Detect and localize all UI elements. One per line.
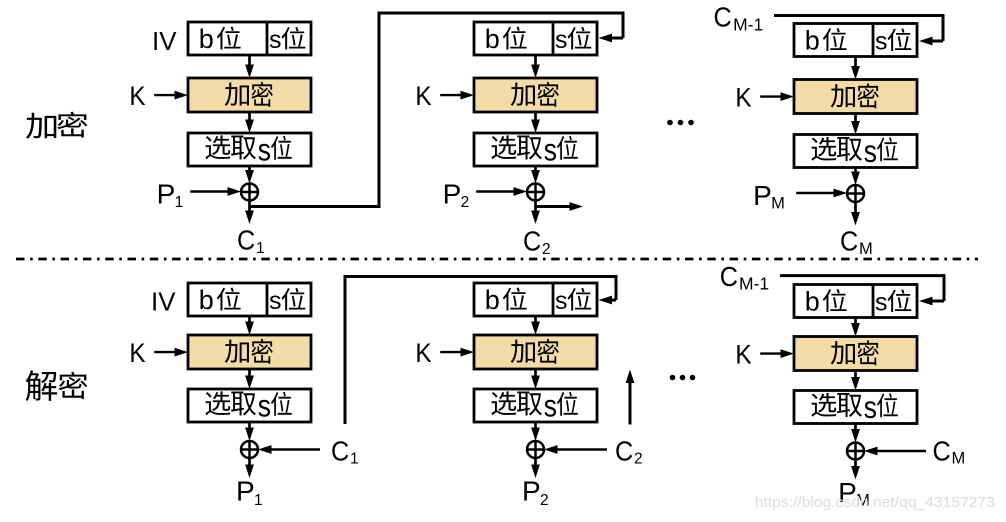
svg-text:s: s: [875, 27, 888, 55]
svg-text:IV: IV: [151, 286, 176, 316]
wire: register to encrypt (dec-3): [851, 318, 860, 337]
register label "b位" (dec-2): [485, 285, 527, 315]
svg-text:b: b: [485, 285, 500, 315]
svg-text:s: s: [258, 133, 271, 168]
section label 加密 (encryption): [26, 112, 87, 139]
XOR node (dec-2): [527, 441, 544, 458]
label P_M: [753, 180, 785, 213]
register label "b位" (dec-3): [805, 286, 847, 316]
svg-text:P: P: [753, 180, 772, 211]
wire: encrypt to select (dec-2): [531, 369, 540, 389]
wire: register to encrypt (enc-2): [531, 55, 540, 78]
label K (enc-2): [415, 82, 431, 111]
wire: K arrow into encrypt box (dec-2): [440, 348, 474, 357]
encrypt box 加密 (dec-3): [794, 337, 917, 371]
wire: K arrow into encrypt box (enc-2): [440, 91, 474, 100]
dash-dot divider line: [16, 258, 978, 261]
wire: C2 up toward next stage (dec): [626, 370, 635, 425]
wire: select to XOR (enc-2): [531, 166, 540, 184]
label IV (enc): [152, 26, 177, 56]
feedback wire: C1 to stage-2 register: [250, 12, 623, 209]
XOR node (enc-1): [241, 184, 258, 201]
wire: select to XOR (dec-3): [851, 424, 860, 443]
svg-text:C: C: [720, 261, 738, 293]
select box 选取s位 (dec-1): [188, 389, 311, 424]
register label "s位" (dec-2): [555, 287, 591, 315]
svg-text:s: s: [875, 288, 888, 316]
svg-text:P: P: [443, 178, 462, 209]
svg-text:M: M: [859, 240, 873, 258]
label C_M-1 (dec): [720, 261, 769, 294]
encrypt box 加密 (enc-1): [188, 78, 311, 112]
svg-text:M-1: M-1: [733, 15, 763, 35]
XOR node (dec-1): [241, 441, 258, 458]
select box 选取s位 (enc-1): [188, 133, 311, 168]
svg-text:C: C: [523, 225, 541, 257]
label P2: [443, 178, 470, 211]
wire: C2 arrow into XOR (dec): [544, 445, 607, 454]
select box 选取s位 (enc-2): [474, 133, 597, 168]
svg-text:P: P: [157, 178, 176, 209]
wire: encrypt to select (enc-3): [851, 114, 860, 135]
wire: XOR down to C_M: [851, 202, 860, 226]
svg-text:M: M: [952, 450, 966, 468]
ellipsis (dec): [670, 375, 696, 381]
svg-text:IV: IV: [152, 26, 177, 56]
svg-text:s: s: [544, 133, 557, 168]
svg-text:K: K: [735, 340, 751, 369]
register label "s位" (enc-1): [269, 26, 305, 54]
svg-text:C: C: [237, 224, 255, 256]
wire: register to encrypt (enc-3): [851, 57, 860, 80]
svg-text:1: 1: [256, 240, 265, 257]
shift register box (dec-1): [188, 283, 311, 316]
label C1 (dec input): [331, 435, 359, 467]
encrypt box 加密 (dec-1): [188, 335, 311, 369]
wire: P2 arrow into XOR: [476, 187, 527, 196]
wire: XOR down to C1: [245, 201, 254, 225]
svg-text:2: 2: [634, 451, 643, 468]
svg-text:K: K: [129, 339, 145, 368]
svg-text:K: K: [415, 339, 431, 368]
svg-text:b: b: [805, 25, 820, 55]
svg-text:s: s: [258, 389, 271, 424]
register label "b位" (dec-1): [199, 285, 241, 315]
label K (dec-3): [735, 340, 751, 369]
wire: encrypt to select (enc-2): [531, 112, 540, 133]
select box 选取s位 (dec-3): [794, 391, 917, 426]
label K (enc-1): [129, 82, 145, 111]
shift register box (dec-2): [474, 283, 597, 316]
register label "b位" (enc-2): [485, 24, 527, 54]
wire: encrypt to select (dec-3): [851, 371, 860, 391]
label K (dec-2): [415, 339, 431, 368]
svg-text:s: s: [544, 389, 557, 424]
wire: C1 arrow into XOR (dec): [258, 445, 320, 454]
label P1: [157, 178, 184, 211]
label IV (dec): [151, 286, 176, 316]
svg-text:b: b: [485, 24, 500, 54]
feedback wire: C1 up to stage-2 register (dec): [344, 275, 617, 424]
wire: C_M arrow into XOR (dec): [864, 447, 926, 456]
label C_M-1 (enc): [714, 1, 764, 35]
wire: K arrow into encrypt box (dec-3): [760, 349, 794, 358]
svg-text:1: 1: [350, 451, 359, 468]
wire: register to encrypt (dec-1): [245, 316, 254, 335]
select box 选取s位 (dec-2): [474, 389, 597, 424]
wire: XOR down to C2: [531, 201, 540, 225]
select box 选取s位 (enc-3): [794, 135, 917, 170]
wire: C_M-1 into stage-M register (dec): [780, 274, 944, 305]
register label "s位" (enc-3): [875, 27, 911, 55]
wire: C2 feedback toward next stage: [536, 202, 584, 211]
svg-text:K: K: [129, 82, 145, 111]
svg-text:s: s: [269, 287, 282, 315]
svg-text:s: s: [555, 26, 568, 54]
svg-text:1: 1: [175, 194, 184, 211]
wire: XOR down to P1 (dec): [245, 458, 254, 478]
svg-text:b: b: [199, 24, 214, 54]
shift register box (enc-1): [188, 22, 311, 55]
shift register box (enc-2): [474, 22, 597, 55]
svg-text:1: 1: [254, 492, 263, 509]
wire: register to encrypt (enc-1): [245, 55, 254, 78]
svg-text:2: 2: [461, 194, 470, 211]
section label 解密 (decryption): [25, 370, 87, 401]
label C_M (dec input): [933, 435, 966, 467]
encrypt box 加密 (dec-2): [474, 335, 597, 369]
svg-text:C: C: [933, 435, 951, 467]
svg-text:P: P: [236, 475, 255, 506]
svg-text:s: s: [555, 287, 568, 315]
watermark: [755, 494, 995, 511]
encrypt box 加密 (enc-3): [794, 80, 917, 114]
svg-text:2: 2: [540, 492, 549, 509]
register label "b位" (enc-1): [199, 24, 241, 54]
wire: P_M arrow into XOR: [796, 189, 847, 198]
label K (dec-1): [129, 339, 145, 368]
register label "s位" (dec-3): [875, 288, 911, 316]
svg-text:b: b: [199, 285, 214, 315]
svg-text:P: P: [522, 475, 541, 506]
svg-text:b: b: [805, 286, 820, 316]
svg-text:K: K: [415, 82, 431, 111]
wire: encrypt to select (enc-1): [245, 112, 254, 133]
wire: select to XOR (enc-3): [851, 168, 860, 186]
svg-text:s: s: [864, 391, 877, 426]
svg-text:s: s: [864, 135, 877, 170]
wire: select to XOR (dec-2): [531, 422, 540, 441]
wire: K arrow into encrypt box (enc-3): [760, 92, 794, 101]
wire: P1 arrow into XOR: [190, 187, 241, 196]
svg-text:C: C: [615, 435, 633, 467]
label C2: [523, 225, 551, 258]
wire: C_M-1 into stage-M register (enc): [774, 14, 943, 45]
XOR node (enc-2): [527, 184, 544, 201]
svg-text:C: C: [714, 1, 732, 33]
XOR node (dec-3): [847, 443, 864, 460]
wire: XOR down to P_M (dec): [851, 460, 860, 480]
shift register box (enc-3): [794, 24, 917, 57]
wire: register to encrypt (dec-2): [531, 316, 540, 335]
wire: select to XOR (dec-1): [245, 422, 254, 441]
wire: select to XOR (enc-1): [245, 166, 254, 184]
svg-text:K: K: [735, 83, 751, 112]
svg-text:2: 2: [542, 241, 551, 258]
svg-text:https://blog.csdn.net/qq_43157: https://blog.csdn.net/qq_43157273: [755, 494, 995, 511]
wire: XOR down to P2 (dec): [531, 458, 540, 478]
svg-text:s: s: [269, 26, 282, 54]
label P2 (dec output): [522, 475, 549, 509]
register label "b位" (enc-3): [805, 25, 847, 55]
XOR node (enc-3): [847, 185, 864, 202]
label C1: [237, 224, 265, 257]
label P_M (dec output): [838, 477, 870, 510]
label C2 (dec input): [615, 435, 643, 467]
encrypt box 加密 (enc-2): [474, 78, 597, 112]
register label "s位" (dec-1): [269, 287, 305, 315]
shift register box (dec-3): [794, 285, 917, 318]
register label "s位" (enc-2): [555, 26, 591, 54]
svg-text:M: M: [771, 194, 785, 212]
label C_M: [840, 225, 873, 258]
svg-text:M-1: M-1: [739, 274, 769, 294]
svg-text:C: C: [331, 435, 349, 467]
wire: K arrow into encrypt box (enc-1): [154, 91, 188, 100]
ellipsis (enc): [667, 120, 694, 126]
wire: encrypt to select (dec-1): [245, 369, 254, 389]
wire: K arrow into encrypt box (dec-1): [154, 348, 188, 357]
label K (enc-3): [735, 83, 751, 112]
label P1 (dec output): [236, 475, 263, 509]
svg-text:C: C: [840, 225, 858, 257]
